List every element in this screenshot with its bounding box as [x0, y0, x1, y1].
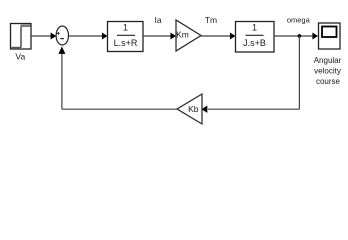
- svg-text:1: 1: [123, 23, 128, 33]
- svg-text:Ia: Ia: [154, 15, 161, 25]
- svg-text:course: course: [316, 77, 341, 86]
- svg-text:Angular: Angular: [314, 56, 342, 65]
- svg-text:Kb: Kb: [188, 104, 199, 114]
- svg-text:Km: Km: [176, 30, 189, 40]
- svg-text:Tm: Tm: [205, 15, 217, 25]
- svg-text:J.s+B: J.s+B: [243, 38, 266, 48]
- svg-text:1: 1: [252, 23, 257, 33]
- svg-text:omega: omega: [287, 16, 311, 25]
- svg-text:velocity: velocity: [314, 67, 341, 76]
- svg-text:Va: Va: [15, 52, 25, 62]
- svg-text:L.s+R: L.s+R: [114, 38, 138, 48]
